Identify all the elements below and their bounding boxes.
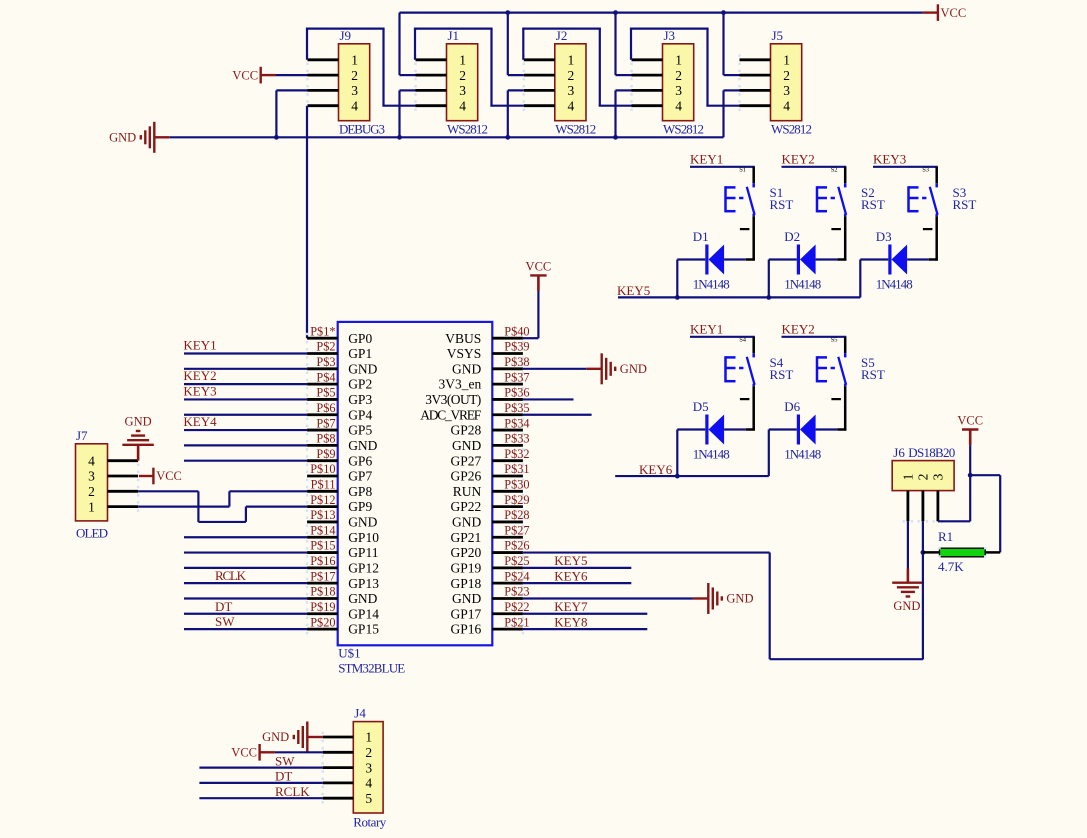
svg-text:RCLK: RCLK <box>275 784 310 799</box>
svg-text:2: 2 <box>351 68 358 83</box>
svg-text:KEY2: KEY2 <box>782 152 815 167</box>
svg-text:3V3(OUT): 3V3(OUT) <box>425 392 481 407</box>
svg-text:P$27: P$27 <box>504 523 529 537</box>
svg-text:3: 3 <box>930 473 945 480</box>
svg-text:3: 3 <box>783 83 790 98</box>
svg-text:GP8: GP8 <box>348 484 372 499</box>
svg-text:GND: GND <box>348 591 377 606</box>
svg-text:P$25: P$25 <box>504 554 529 568</box>
svg-text:P$36: P$36 <box>504 386 529 400</box>
svg-text:P$38: P$38 <box>504 355 529 369</box>
svg-text:4.7K: 4.7K <box>938 559 964 574</box>
svg-text:GP15: GP15 <box>348 622 379 637</box>
svg-text:GND: GND <box>125 415 152 429</box>
svg-text:2: 2 <box>88 484 95 499</box>
svg-text:J6: J6 <box>893 445 905 460</box>
svg-text:KEY2: KEY2 <box>782 322 815 337</box>
svg-text:P$8: P$8 <box>316 432 335 446</box>
svg-text:D3: D3 <box>876 229 892 244</box>
svg-text:1N4148: 1N4148 <box>784 276 821 291</box>
svg-text:GND: GND <box>348 361 377 376</box>
svg-text:P$6: P$6 <box>316 401 335 415</box>
svg-text:P$18: P$18 <box>310 585 335 599</box>
svg-text:4: 4 <box>675 98 682 113</box>
svg-text:2: 2 <box>459 68 466 83</box>
svg-text:VCC: VCC <box>957 413 983 427</box>
svg-text:KEY8: KEY8 <box>554 614 587 629</box>
svg-text:RST: RST <box>770 367 794 382</box>
svg-text:2: 2 <box>915 474 930 481</box>
svg-text:3: 3 <box>459 83 466 98</box>
svg-text:1: 1 <box>459 53 466 68</box>
svg-text:GP21: GP21 <box>451 530 482 545</box>
svg-text:VCC: VCC <box>526 259 552 273</box>
svg-text:4: 4 <box>365 776 372 791</box>
svg-text:WS2812: WS2812 <box>555 122 596 137</box>
svg-text:GP12: GP12 <box>348 560 379 575</box>
svg-text:2: 2 <box>365 745 372 760</box>
svg-text:P$9: P$9 <box>316 447 335 461</box>
svg-text:WS2812: WS2812 <box>663 122 704 137</box>
svg-text:P$13: P$13 <box>310 508 335 522</box>
svg-text:P$12: P$12 <box>310 493 335 507</box>
svg-text:GP1: GP1 <box>348 346 372 361</box>
svg-text:GP0: GP0 <box>348 331 372 346</box>
svg-text:J5: J5 <box>772 28 784 43</box>
svg-text:4: 4 <box>351 98 358 113</box>
svg-text:J3: J3 <box>664 28 676 43</box>
svg-text:WS2812: WS2812 <box>447 122 488 137</box>
svg-text:1N4148: 1N4148 <box>876 276 913 291</box>
svg-text:3: 3 <box>88 469 95 484</box>
svg-text:GP6: GP6 <box>348 453 372 468</box>
svg-text:RST: RST <box>953 197 977 212</box>
svg-text:3: 3 <box>365 760 372 775</box>
svg-text:RST: RST <box>770 197 794 212</box>
svg-text:3: 3 <box>351 83 358 98</box>
svg-text:GND: GND <box>726 592 753 606</box>
svg-text:3: 3 <box>675 83 682 98</box>
svg-text:1N4148: 1N4148 <box>693 446 730 461</box>
svg-text:GP17: GP17 <box>451 606 482 621</box>
svg-text:KEY1: KEY1 <box>183 338 216 353</box>
svg-text:ADC_VREF: ADC_VREF <box>420 407 481 422</box>
svg-text:VBUS: VBUS <box>445 331 481 346</box>
svg-text:GP18: GP18 <box>451 576 482 591</box>
svg-text:P$5: P$5 <box>316 386 335 400</box>
svg-text:GP26: GP26 <box>451 469 482 484</box>
svg-text:P$30: P$30 <box>504 478 529 492</box>
svg-text:P$7: P$7 <box>316 416 335 430</box>
svg-text:Rotary: Rotary <box>353 814 387 829</box>
svg-text:1: 1 <box>568 53 575 68</box>
svg-text:1: 1 <box>365 730 372 745</box>
svg-text:P$4: P$4 <box>316 370 335 384</box>
svg-text:KEY5: KEY5 <box>554 553 587 568</box>
svg-text:1N4148: 1N4148 <box>784 446 821 461</box>
svg-text:KEY1: KEY1 <box>690 152 723 167</box>
svg-text:P$28: P$28 <box>504 508 529 522</box>
svg-text:P$17: P$17 <box>310 569 335 583</box>
svg-text:P$16: P$16 <box>310 554 335 568</box>
svg-text:SW: SW <box>275 753 295 768</box>
svg-text:P$21: P$21 <box>504 615 529 629</box>
svg-text:GP11: GP11 <box>348 545 378 560</box>
svg-text:KEY5: KEY5 <box>617 283 650 298</box>
svg-text:1N4148: 1N4148 <box>693 276 730 291</box>
svg-text:KEY6: KEY6 <box>639 462 673 477</box>
svg-text:GP20: GP20 <box>451 545 482 560</box>
svg-text:DS18B20: DS18B20 <box>908 445 955 460</box>
svg-text:RUN: RUN <box>453 484 482 499</box>
svg-text:RST: RST <box>861 197 885 212</box>
svg-text:VCC: VCC <box>231 746 257 760</box>
svg-text:GP19: GP19 <box>451 560 482 575</box>
svg-text:GP27: GP27 <box>451 453 482 468</box>
svg-text:GP10: GP10 <box>348 530 379 545</box>
svg-text:P$22: P$22 <box>504 600 529 614</box>
svg-text:P$29: P$29 <box>504 493 529 507</box>
svg-text:1: 1 <box>900 474 915 481</box>
svg-text:GP22: GP22 <box>451 499 482 514</box>
svg-text:3V3_en: 3V3_en <box>439 377 482 392</box>
svg-text:GND: GND <box>262 730 289 744</box>
svg-text:2: 2 <box>675 68 682 83</box>
svg-text:GND: GND <box>452 361 481 376</box>
svg-text:P$39: P$39 <box>504 340 529 354</box>
svg-text:5: 5 <box>365 791 372 806</box>
svg-text:SW: SW <box>215 614 235 629</box>
svg-text:2: 2 <box>783 68 790 83</box>
svg-text:KEY6: KEY6 <box>554 568 588 583</box>
svg-text:P$23: P$23 <box>504 585 529 599</box>
svg-text:GP2: GP2 <box>348 377 372 392</box>
svg-text:J4: J4 <box>354 706 366 721</box>
svg-text:GND: GND <box>620 362 647 376</box>
svg-text:U$1: U$1 <box>338 646 360 661</box>
svg-text:4: 4 <box>783 98 790 113</box>
svg-text:1: 1 <box>88 499 95 514</box>
svg-text:P$11: P$11 <box>311 478 336 492</box>
svg-text:D5: D5 <box>693 399 709 414</box>
svg-text:P$20: P$20 <box>310 615 335 629</box>
svg-text:P$37: P$37 <box>504 370 529 384</box>
svg-text:J9: J9 <box>340 28 352 43</box>
svg-text:P$1*: P$1* <box>310 324 335 338</box>
svg-text:KEY2: KEY2 <box>183 368 216 383</box>
svg-text:GND: GND <box>109 131 136 145</box>
svg-text:VCC: VCC <box>156 469 182 483</box>
svg-text:P$15: P$15 <box>310 539 335 553</box>
svg-text:DT: DT <box>275 769 292 784</box>
svg-text:DT: DT <box>215 599 232 614</box>
svg-text:P$35: P$35 <box>504 401 529 415</box>
svg-text:GP14: GP14 <box>348 606 379 621</box>
svg-text:GP13: GP13 <box>348 576 379 591</box>
svg-text:J7: J7 <box>76 428 88 443</box>
svg-text:1: 1 <box>783 53 790 68</box>
svg-text:GP16: GP16 <box>451 622 482 637</box>
svg-text:RST: RST <box>861 367 885 382</box>
svg-text:STM32BLUE: STM32BLUE <box>338 661 405 676</box>
svg-text:GND: GND <box>452 591 481 606</box>
svg-text:P$40: P$40 <box>504 324 529 338</box>
svg-text:P$31: P$31 <box>504 462 529 476</box>
svg-text:P$19: P$19 <box>310 600 335 614</box>
svg-text:R1: R1 <box>938 529 953 544</box>
svg-text:1: 1 <box>351 53 358 68</box>
svg-text:GND: GND <box>893 599 920 613</box>
svg-text:RCLK: RCLK <box>215 568 247 583</box>
svg-text:VSYS: VSYS <box>447 346 482 361</box>
svg-text:GND: GND <box>348 515 377 530</box>
svg-text:J2: J2 <box>556 28 568 43</box>
svg-text:GP3: GP3 <box>348 392 372 407</box>
svg-text:P$10: P$10 <box>310 462 335 476</box>
svg-text:P$3: P$3 <box>316 355 335 369</box>
svg-text:GND: GND <box>348 438 377 453</box>
svg-text:D2: D2 <box>784 229 800 244</box>
svg-text:KEY7: KEY7 <box>554 599 588 614</box>
svg-text:4: 4 <box>459 98 466 113</box>
svg-text:P$32: P$32 <box>504 447 529 461</box>
svg-text:KEY4: KEY4 <box>183 414 217 429</box>
svg-text:GP4: GP4 <box>348 407 372 422</box>
svg-text:P$34: P$34 <box>504 416 529 430</box>
svg-text:GP28: GP28 <box>451 423 482 438</box>
svg-text:P$2: P$2 <box>316 340 335 354</box>
svg-text:KEY1: KEY1 <box>690 322 723 337</box>
svg-text:P$14: P$14 <box>310 523 335 537</box>
svg-text:D1: D1 <box>693 229 709 244</box>
svg-text:GP7: GP7 <box>348 469 372 484</box>
svg-text:P$24: P$24 <box>504 569 529 583</box>
svg-text:WS2812: WS2812 <box>771 122 812 137</box>
svg-text:D6: D6 <box>784 399 800 414</box>
svg-text:3: 3 <box>568 83 575 98</box>
svg-text:KEY3: KEY3 <box>873 152 906 167</box>
svg-text:KEY3: KEY3 <box>183 383 216 398</box>
svg-text:GP5: GP5 <box>348 423 372 438</box>
svg-text:GND: GND <box>452 515 481 530</box>
svg-text:GND: GND <box>452 438 481 453</box>
svg-text:1: 1 <box>675 53 682 68</box>
svg-text:VCC: VCC <box>232 68 258 82</box>
svg-text:OLED: OLED <box>76 526 108 541</box>
svg-text:J1: J1 <box>448 28 460 43</box>
svg-text:2: 2 <box>568 68 575 83</box>
svg-text:DEBUG3: DEBUG3 <box>339 122 385 137</box>
svg-text:4: 4 <box>568 98 575 113</box>
svg-text:P$26: P$26 <box>504 539 529 553</box>
svg-text:P$33: P$33 <box>504 432 529 446</box>
svg-text:GP9: GP9 <box>348 499 372 514</box>
svg-text:4: 4 <box>88 453 95 468</box>
svg-text:VCC: VCC <box>941 6 967 20</box>
